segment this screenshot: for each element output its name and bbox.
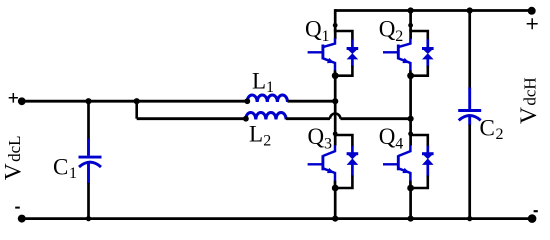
wire: bottom rail	[22, 217, 532, 220]
node: L2 branch tap	[134, 98, 140, 104]
svg-text:L: L	[249, 122, 263, 147]
wire: leg1 Q3 emitter to bottom rail	[334, 188, 337, 219]
capacitor C1	[87, 101, 90, 140]
svg-text:L: L	[252, 69, 266, 94]
svg-text:C: C	[480, 115, 495, 140]
svg-text:V: V	[516, 107, 542, 124]
svg-text:1: 1	[69, 165, 77, 182]
svg-text:1: 1	[266, 79, 274, 96]
svg-text:Q: Q	[379, 124, 396, 149]
wire: leg2 rail to Q2	[409, 9, 412, 31]
svg-text:Q: Q	[305, 17, 322, 42]
wire: input + feeder	[22, 100, 248, 103]
node: bottom rail / C1	[86, 216, 91, 221]
node: bottom rail / C2	[467, 216, 472, 221]
wire: L2 branch drop	[135, 101, 138, 119]
wire: leg1 Q1 emitter to Q3 collector	[334, 76, 337, 136]
svg-text:Q: Q	[379, 17, 396, 42]
node: input - terminal	[18, 215, 26, 223]
transistor Q1 with diode	[308, 23, 359, 79]
svg-text:3: 3	[324, 135, 332, 152]
wire: L2 to hop	[286, 117, 330, 120]
node: bottom rail / Q3 leg	[332, 216, 338, 222]
svg-text:2: 2	[263, 132, 271, 149]
node: L1 left end	[244, 98, 250, 104]
svg-text:V: V	[0, 163, 26, 180]
node: C1 tap	[85, 98, 91, 104]
node: phase A (L1/Q1/Q3)	[332, 98, 338, 104]
wire: hop to phase node B	[340, 117, 410, 120]
capacitor C2	[468, 9, 471, 89]
inductor L2	[246, 113, 286, 120]
svg-text:dcL: dcL	[5, 135, 24, 161]
node: input + terminal	[18, 97, 26, 105]
node: phase B (L2/Q2/Q4)	[408, 116, 414, 122]
svg-text:dcH: dcH	[520, 77, 539, 105]
label: + (input)	[9, 93, 18, 103]
svg-text:4: 4	[395, 135, 403, 152]
node: top rail / C2	[467, 7, 473, 13]
svg-text:2: 2	[496, 126, 504, 143]
svg-text:C: C	[53, 155, 68, 180]
svg-text:2: 2	[395, 28, 403, 45]
node: top rail / Q2 leg	[408, 7, 414, 13]
label: + (output)	[527, 18, 538, 29]
node: output - terminal	[528, 214, 537, 223]
wire: leg1 rail to Q1	[334, 9, 337, 31]
svg-text:Q: Q	[308, 124, 325, 149]
node: L2 left end	[243, 116, 249, 122]
wire: L1 to phase node A	[288, 100, 336, 103]
transistor Q3 with diode	[308, 131, 359, 191]
label: - (input)	[15, 207, 20, 209]
svg-text:1: 1	[322, 28, 330, 45]
transistor Q2 with diode	[383, 23, 434, 79]
wire hop over leg 1	[330, 114, 340, 119]
node: output + terminal	[528, 7, 536, 15]
label VdcH (output voltage)	[516, 77, 542, 124]
label: - (output)	[534, 210, 538, 212]
wire: leg2 Q4 emitter to bottom rail	[409, 188, 412, 219]
wire: leg2 Q2 emitter to Q4 collector	[409, 76, 412, 136]
transistor Q4 with diode	[383, 131, 434, 191]
node: bottom rail / Q4 leg	[408, 216, 414, 222]
label VdcL (input voltage)	[0, 135, 26, 180]
inductor L1	[247, 95, 287, 102]
wire: L2 feeder	[137, 117, 246, 120]
wire: top rail	[335, 9, 533, 12]
